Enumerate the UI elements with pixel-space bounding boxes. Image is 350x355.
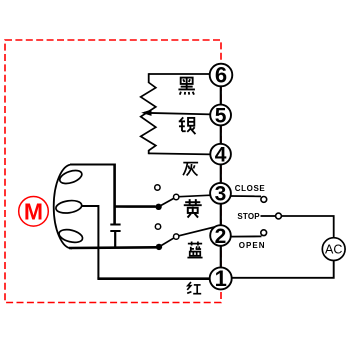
svg-text:2: 2 (215, 225, 227, 248)
svg-text:CLOSE: CLOSE (235, 184, 266, 193)
svg-text:M: M (24, 199, 43, 225)
wire terminal1 to AC (right) (231, 260, 334, 278)
svg-text:4: 4 (215, 143, 227, 166)
limit switch S2 idle contact (open circle) (155, 224, 160, 229)
svg-text:5: 5 (215, 104, 227, 127)
actuator enclosure (red dashed boundary) (5, 40, 221, 303)
motor winding loop bottom (58, 227, 84, 244)
CLOSE push button contact (261, 197, 267, 203)
label hong (red) chinese (187, 282, 201, 294)
wire terminal6 to potentiometer top (black lead) (149, 73, 211, 75)
label hui (grey) chinese (183, 163, 198, 176)
wire capacitor node to switch S1 common (114, 205, 156, 208)
wire potentiometer top drop (148, 73, 150, 83)
motor winding loop middle (55, 199, 82, 215)
wire motor middle tap (common) (81, 206, 98, 279)
wiper arrow wire terminal5 (silver lead) (144, 113, 211, 115)
wire terminal2 to OPEN button (231, 235, 262, 237)
terminal 4 (210, 144, 231, 165)
label yin (silver) chinese (179, 117, 196, 134)
wire terminal1 left (red lead) (97, 277, 211, 280)
motor winding arc (54, 165, 72, 249)
wire STOP button to AC (282, 216, 334, 239)
motor winding loop top (58, 168, 83, 186)
wiper arrowhead (141, 110, 151, 116)
terminal 3 (210, 183, 231, 204)
wire potentiometer bottom drop (148, 150, 150, 154)
svg-text:STOP: STOP (237, 212, 260, 221)
terminal 1 (210, 267, 232, 289)
wire switch S2 to terminal2 (blue lead) (179, 227, 215, 236)
limit switch S2 common contact (filled dot) (156, 244, 162, 250)
terminal 5 (210, 105, 231, 126)
wire motor bottom end to switch S2 common (69, 246, 157, 249)
terminal 6 (210, 64, 233, 87)
svg-text:6: 6 (215, 63, 227, 88)
wire motor top end to capacitor node (70, 164, 115, 166)
limit switch S2 blade (159, 238, 174, 247)
potentiometer RP (feedback resistor zigzag) (141, 83, 156, 151)
svg-text:AC: AC (325, 243, 342, 257)
label hei (black) chinese (178, 78, 194, 95)
limit switch S1 blade (159, 199, 174, 207)
OPEN push button contact (261, 230, 267, 236)
wire STOP button left (261, 215, 276, 217)
limit switch S2 output contact (open circle) (174, 234, 179, 239)
limit switch S1 output contact (open circle) (174, 194, 179, 199)
label huang (yellow) chinese (184, 199, 202, 217)
capacitor C top plate (110, 224, 120, 226)
capacitor C bottom plate (110, 230, 120, 232)
terminal 2 (210, 225, 231, 246)
limit switch S1 common contact (filled dot) (155, 204, 161, 210)
wire capacitor bottom lead (114, 231, 116, 249)
limit switch S1 idle contact (open circle) (155, 185, 160, 190)
terminal column wire (220, 75, 222, 279)
STOP push button contact (276, 213, 282, 219)
svg-text:OPEN: OPEN (239, 241, 266, 250)
wire switch S1 to terminal3 (yellow lead) (179, 195, 211, 197)
wire terminal4 to potentiometer bottom (grey lead) (149, 153, 211, 154)
wire capacitor top lead (vertical) (113, 164, 116, 225)
motor M symbol (red circle) (19, 197, 49, 227)
AC power source circle (322, 238, 345, 261)
label lan (blue) chinese (187, 242, 202, 258)
wire terminal3 to CLOSE button (231, 195, 262, 197)
svg-text:3: 3 (215, 183, 227, 206)
svg-text:1: 1 (215, 266, 227, 291)
